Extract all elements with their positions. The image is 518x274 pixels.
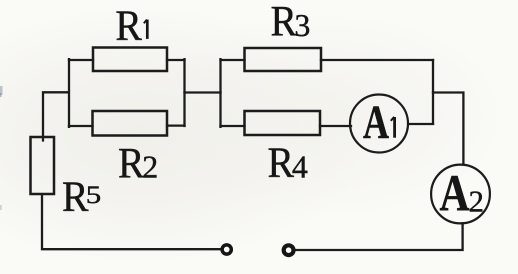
- wire junction to A2: [433, 93, 463, 165]
- svg-text:A: A: [363, 96, 389, 149]
- svg-text:2: 2: [469, 184, 485, 219]
- resistor R2: [93, 111, 168, 136]
- wire R3 to right junction: [321, 59, 433, 61]
- ammeter A2 circle: [431, 165, 490, 224]
- svg-text:R: R: [115, 2, 141, 50]
- terminal left: [222, 245, 231, 254]
- svg-text:2: 2: [142, 149, 158, 185]
- wire R5 top to left bus junction: [43, 92, 68, 140]
- wire A1 to junction: [408, 123, 433, 125]
- wire R2 right stub: [167, 124, 185, 126]
- wire R3 left stub: [221, 59, 245, 61]
- resistor R4: [245, 111, 321, 135]
- svg-text:3: 3: [294, 7, 310, 43]
- wire R1 left stub: [69, 59, 93, 61]
- svg-text:R: R: [118, 140, 145, 188]
- wire A2 to bottom rail: [296, 223, 463, 250]
- wire vertical junction drop: [432, 60, 434, 124]
- wire R4 left stub: [221, 125, 245, 127]
- wire R2 left stub: [69, 125, 93, 127]
- wire right bus of R1/R2 pair: [183, 59, 185, 126]
- wire series link between groups: [185, 91, 221, 93]
- edge smudge marks: [0, 86, 3, 95]
- wire R1 right stub: [167, 59, 185, 61]
- ammeter A1 circle: [350, 95, 408, 153]
- wire left bus of R3/R4 pair: [219, 59, 221, 127]
- svg-text:R: R: [268, 139, 295, 187]
- svg-text:4: 4: [292, 149, 308, 185]
- terminal right: [284, 245, 294, 255]
- wire bottom left rail to R5: [42, 195, 221, 249]
- resistor R1: [93, 48, 167, 72]
- wire R4 to ammeter A1: [320, 125, 351, 127]
- svg-text:R: R: [271, 0, 298, 46]
- resistor R5: [31, 137, 55, 194]
- wire left bus of R1/R2 pair: [68, 59, 70, 127]
- svg-text:A: A: [440, 166, 470, 223]
- svg-text:5: 5: [86, 182, 102, 209]
- svg-text:R: R: [62, 173, 89, 221]
- resistor R3: [245, 48, 322, 71]
